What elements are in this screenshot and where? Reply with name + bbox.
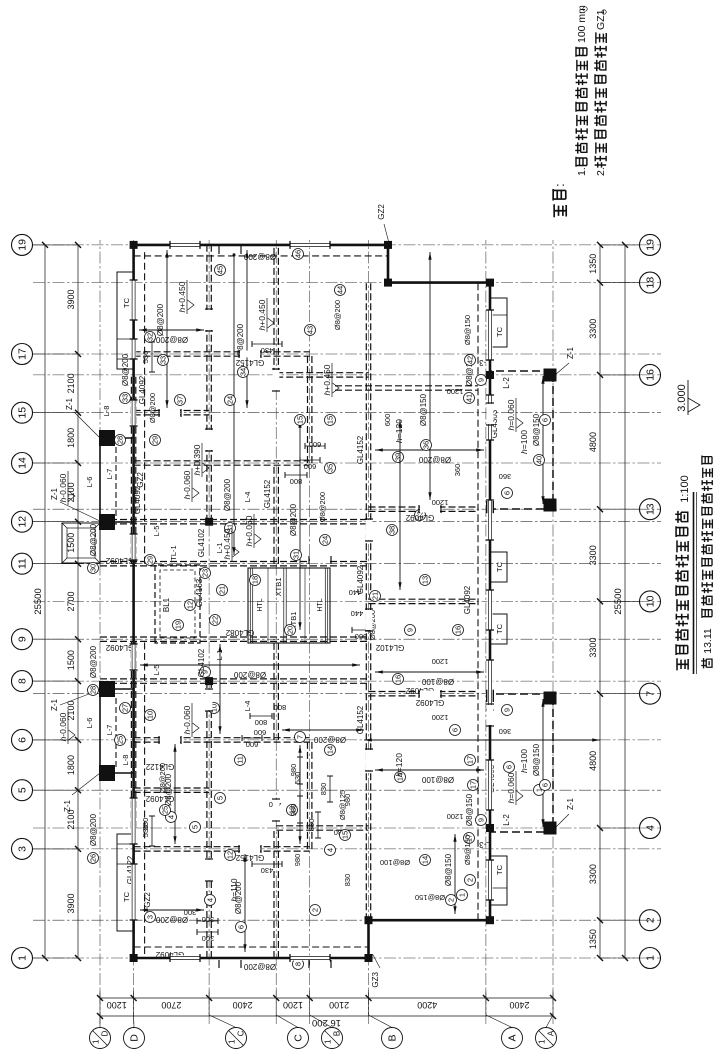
dim 530 right <box>151 342 153 372</box>
svg-text:1350: 1350 <box>588 929 598 949</box>
svg-text:23: 23 <box>201 569 210 577</box>
window left wall 2 <box>290 955 330 960</box>
svg-text:300: 300 <box>184 908 197 917</box>
svg-text:39: 39 <box>394 453 403 461</box>
svg-text:3300: 3300 <box>588 864 598 884</box>
svg-text:6: 6 <box>451 728 460 732</box>
svg-text:28: 28 <box>89 686 98 694</box>
svg-text:1500: 1500 <box>66 533 76 553</box>
svg-text:GZ2: GZ2 <box>143 892 152 908</box>
wall 1/B right <box>307 354 309 463</box>
svg-text:Ø8@200: Ø8@200 <box>89 645 98 678</box>
svg-text:3: 3 <box>146 915 155 919</box>
wall C mid-right <box>273 463 275 564</box>
svg-text:530: 530 <box>141 351 150 364</box>
svg-text:25500: 25500 <box>33 588 44 614</box>
svg-text:Ø8@200: Ø8@200 <box>148 393 157 423</box>
wall axis9 <box>100 640 369 642</box>
svg-text:600: 600 <box>246 740 259 749</box>
Z-1 leaders top <box>72 773 100 795</box>
svg-text:44: 44 <box>336 286 345 294</box>
dim 430 left <box>252 863 282 865</box>
svg-text:2400: 2400 <box>509 1000 529 1010</box>
outer wall right axis-19 <box>134 244 388 247</box>
door opening jamb ticks on interior walls <box>205 880 213 882</box>
svg-text:14: 14 <box>421 856 430 864</box>
svg-text:L-1: L-1 <box>215 543 224 554</box>
svg-text:1200: 1200 <box>432 657 449 666</box>
svg-text:h+0.060: h+0.060 <box>244 515 254 546</box>
slab span 7 room W <box>282 729 364 731</box>
svg-text:Ø8@200: Ø8@200 <box>89 813 98 846</box>
outer wall bottom A-axis <box>489 283 492 921</box>
svg-text:17: 17 <box>17 348 29 360</box>
wall C left <box>273 828 275 958</box>
svg-text:Ø8@200: Ø8@200 <box>243 252 276 261</box>
window right wall 1 <box>170 242 200 247</box>
wall D mid-left <box>130 639 132 828</box>
svg-text:Ø8@200: Ø8@200 <box>156 303 165 336</box>
svg-text:9: 9 <box>477 818 486 822</box>
dim 800 left <box>250 715 272 717</box>
svg-text:15: 15 <box>296 416 305 424</box>
svg-text:Ø8@200: Ø8@200 <box>418 455 451 464</box>
svg-text:Ø8@100: Ø8@100 <box>380 858 410 867</box>
svg-text:TC: TC <box>495 864 504 875</box>
window left wall 1 <box>170 955 200 960</box>
svg-text:A: A <box>547 1030 556 1036</box>
wall axis6 <box>134 741 310 743</box>
svg-text:10: 10 <box>146 711 155 719</box>
svg-text:9: 9 <box>477 378 486 382</box>
svg-text:Ø8@150: Ø8@150 <box>444 853 453 886</box>
window top 5 <box>131 400 136 426</box>
svg-text:Ø8@150: Ø8@150 <box>415 893 445 902</box>
svg-text:XTB1: XTB1 <box>274 578 283 597</box>
dim 830 left 2 <box>329 776 331 802</box>
svg-text:43: 43 <box>306 326 315 334</box>
svg-text:TC: TC <box>495 623 504 634</box>
svg-text:24: 24 <box>226 396 235 404</box>
wall axis16 <box>276 376 368 378</box>
svg-text:5: 5 <box>17 787 29 793</box>
svg-text:Ø8@200: Ø8@200 <box>155 915 188 924</box>
outer wall left axis-1 <box>134 957 369 960</box>
window top 4 <box>131 534 136 560</box>
svg-text:360: 360 <box>499 472 512 481</box>
svg-text:1350: 1350 <box>588 254 598 274</box>
circled 6 in left balcony <box>504 762 515 773</box>
svg-text:29: 29 <box>151 436 160 444</box>
slab span 6 kitchen <box>244 854 246 952</box>
svg-text:7: 7 <box>296 735 305 739</box>
svg-text:19: 19 <box>174 621 183 629</box>
svg-text:Ø8@150: Ø8@150 <box>463 315 472 345</box>
svg-text:L-7: L-7 <box>105 725 114 736</box>
notes: shuoming <box>554 204 566 217</box>
svg-text:15: 15 <box>326 416 335 424</box>
svg-text:h=100: h=100 <box>519 430 529 454</box>
svg-text:3300: 3300 <box>588 319 598 339</box>
svg-text:12: 12 <box>17 516 29 528</box>
svg-text:41: 41 <box>465 394 474 402</box>
svg-text:B: B <box>387 1034 399 1041</box>
svg-text:1800: 1800 <box>66 428 76 448</box>
svg-text:Z-1: Z-1 <box>50 698 59 711</box>
svg-text:17: 17 <box>469 781 478 789</box>
svg-text:3300: 3300 <box>588 545 598 565</box>
Z-1 leader left balcony <box>555 814 569 828</box>
svg-text:830: 830 <box>343 874 352 887</box>
svg-text:830: 830 <box>319 783 328 796</box>
svg-text:1200: 1200 <box>447 812 464 821</box>
wall 1/C left <box>206 681 208 958</box>
svg-text:GL4092: GL4092 <box>133 485 142 514</box>
wall axis14 <box>134 464 310 466</box>
svg-text:16 200: 16 200 <box>312 1017 341 1028</box>
svg-text:2100: 2100 <box>329 1000 349 1010</box>
circled position numbers <box>173 620 184 631</box>
svg-text:L-6: L-6 <box>85 718 94 729</box>
wall 1/C right <box>206 245 208 522</box>
svg-text:h=120: h=120 <box>394 419 404 443</box>
svg-text:33: 33 <box>159 356 168 364</box>
window bottom 4 <box>487 590 492 630</box>
svg-text:L-8: L-8 <box>121 755 130 766</box>
svg-text:Ø8@125: Ø8@125 <box>338 790 347 820</box>
wall axis3 <box>134 850 310 852</box>
svg-text:TC: TC <box>495 561 504 572</box>
outer wall top D-axis <box>132 245 135 958</box>
window bottom 1 <box>487 860 492 900</box>
svg-text:20: 20 <box>286 626 295 634</box>
window bottom 7 <box>487 310 492 360</box>
svg-text:h-0.060: h-0.060 <box>58 473 68 502</box>
svg-text:2400: 2400 <box>233 1000 253 1010</box>
svg-text:L-2: L-2 <box>502 377 511 389</box>
svg-text:5: 5 <box>216 796 225 800</box>
svg-text:6: 6 <box>505 765 514 769</box>
svg-text:9: 9 <box>17 636 29 642</box>
wall axis4 <box>276 829 368 831</box>
svg-text:42: 42 <box>466 356 475 364</box>
svg-text:Ø8@200: Ø8@200 <box>243 962 276 971</box>
svg-text:Ø8@200: Ø8@200 <box>223 478 232 511</box>
dim 980 left pair <box>299 796 301 823</box>
svg-text:2: 2 <box>645 917 657 923</box>
TC bay top-right <box>117 272 134 369</box>
svg-text:Z-1: Z-1 <box>566 346 575 359</box>
svg-text:A: A <box>507 1034 519 1041</box>
numbered axis grid lines <box>33 957 661 959</box>
svg-text:GZ2: GZ2 <box>377 204 386 220</box>
svg-text:2.: 2. <box>595 167 607 176</box>
svg-text:19: 19 <box>645 239 657 251</box>
top axis circles <box>12 948 33 969</box>
svg-text:Ø8@150: Ø8@150 <box>532 743 541 776</box>
BL1 balcony block over entrance <box>155 565 200 643</box>
svg-text:14: 14 <box>326 746 335 754</box>
svg-text:30: 30 <box>89 564 98 572</box>
svg-text:45: 45 <box>216 266 225 274</box>
GZ3 leader <box>373 954 381 968</box>
svg-text:25: 25 <box>116 736 125 744</box>
svg-text:2: 2 <box>311 908 320 912</box>
svg-text:GZ1: GZ1 <box>595 9 607 30</box>
dim 430 right <box>252 343 282 345</box>
svg-text:25500: 25500 <box>613 588 624 614</box>
svg-text:2: 2 <box>466 878 475 882</box>
svg-text:300: 300 <box>202 934 215 943</box>
svg-text:Ø8@200: Ø8@200 <box>333 300 342 330</box>
svg-text:4800: 4800 <box>588 432 598 452</box>
wall right-mid x=672 <box>335 389 478 391</box>
svg-text:980: 980 <box>289 804 298 817</box>
extra circled numbers + rebar labels scatter <box>320 535 331 546</box>
svg-text:15: 15 <box>341 831 350 839</box>
slab span 36 living E h <box>429 252 431 500</box>
Z-1 leader right balcony <box>555 363 569 375</box>
slab span 14 living <box>375 769 484 771</box>
slab span 1 balcony left <box>542 699 544 827</box>
corner columns <box>130 954 138 962</box>
svg-text:GL4152: GL4152 <box>235 853 264 862</box>
svg-text:980: 980 <box>293 854 302 867</box>
wall D mid-right <box>130 375 132 564</box>
svg-text:530: 530 <box>141 825 150 838</box>
porch right walls + Z-1 columns <box>99 438 101 522</box>
svg-text:C: C <box>293 1034 305 1042</box>
wall axis11 <box>100 565 369 567</box>
svg-text:11: 11 <box>236 756 245 764</box>
svg-text:33: 33 <box>121 394 130 402</box>
svg-text:800: 800 <box>290 477 303 486</box>
svg-text:430: 430 <box>261 346 274 355</box>
svg-text:14: 14 <box>17 457 29 469</box>
window top 7 <box>131 280 136 320</box>
wall B main <box>365 283 367 921</box>
svg-text:9: 9 <box>503 708 512 712</box>
svg-text:600: 600 <box>254 728 267 737</box>
top segment dimensions <box>77 245 79 958</box>
svg-text:600: 600 <box>304 462 317 471</box>
svg-text:600: 600 <box>309 440 322 449</box>
svg-text:h=0.060: h=0.060 <box>506 399 516 430</box>
svg-text:1800: 1800 <box>66 755 76 775</box>
svg-text:3.000: 3.000 <box>676 384 688 412</box>
circled 9 near left balcony <box>502 705 513 716</box>
title line 2: tu 13.11 mou zhuzhai yiceng louceng jiegou buzhitu <box>701 658 712 668</box>
svg-text:GL4152: GL4152 <box>356 705 365 734</box>
bottom overall dimension 25500 <box>624 245 626 958</box>
svg-text:32: 32 <box>146 333 155 341</box>
dim 830 left <box>317 812 319 838</box>
svg-text:1: 1 <box>645 955 657 961</box>
window right wall 2 <box>290 242 330 247</box>
title underline double <box>693 492 695 674</box>
TC bay bottom-left <box>490 856 507 905</box>
svg-text:Ø8@200: Ø8@200 <box>158 763 167 793</box>
svg-text:HTL: HTL <box>257 598 264 611</box>
TC bay bottom mid-right <box>490 552 507 582</box>
svg-text:15: 15 <box>17 407 29 419</box>
svg-text:40: 40 <box>535 456 544 464</box>
slab span 4 room N2 <box>174 744 176 844</box>
svg-text:600: 600 <box>383 414 392 427</box>
svg-text:2100: 2100 <box>66 373 76 393</box>
wall axis5 <box>134 791 210 793</box>
central entrance canopy <box>62 523 100 563</box>
svg-text:h=0.060: h=0.060 <box>506 772 516 803</box>
balcony bottom-right (axes 13-16) <box>490 371 553 509</box>
svg-text:BL1: BL1 <box>162 597 171 612</box>
svg-text:25: 25 <box>161 806 170 814</box>
svg-text:3900: 3900 <box>66 893 76 913</box>
svg-text:L-5: L-5 <box>152 665 161 676</box>
svg-text:1: 1 <box>92 1039 101 1044</box>
wall C mid-left <box>273 639 275 740</box>
svg-text:36: 36 <box>422 441 431 449</box>
svg-text:Ø8@200: Ø8@200 <box>318 492 327 522</box>
svg-text:7: 7 <box>645 691 657 697</box>
dim 600/600 right mid <box>300 459 320 461</box>
svg-text:GL4092: GL4092 <box>463 585 472 614</box>
TC bay bottom-right <box>490 298 507 347</box>
svg-text:2700: 2700 <box>161 1000 181 1010</box>
top overall dimension 25500 <box>44 245 46 958</box>
svg-text:800: 800 <box>255 718 268 727</box>
svg-text:46: 46 <box>294 250 303 258</box>
svg-text:Ø8@200: Ø8@200 <box>89 523 98 556</box>
svg-text:430: 430 <box>261 866 274 875</box>
svg-text:TC: TC <box>122 297 131 308</box>
svg-text:Z-1: Z-1 <box>63 799 72 812</box>
window bottom 3 <box>487 660 492 710</box>
svg-text:4800: 4800 <box>588 751 598 771</box>
svg-text:C: C <box>237 1030 246 1036</box>
svg-text:h+0.450: h+0.450 <box>322 364 332 395</box>
window top 3 <box>131 644 136 670</box>
cnum cluster left unit <box>310 905 321 916</box>
svg-text:8: 8 <box>294 962 303 966</box>
svg-text:4: 4 <box>206 898 215 902</box>
svg-text:Z-1: Z-1 <box>65 397 74 410</box>
svg-text:1.: 1. <box>576 167 588 176</box>
svg-text:GL4092: GL4092 <box>145 794 174 803</box>
slab span 10 mid <box>219 644 221 734</box>
svg-text:GL4152: GL4152 <box>263 479 272 508</box>
svg-text:13.11: 13.11 <box>702 628 714 654</box>
svg-text:L-1: L-1 <box>215 650 224 661</box>
svg-text:360: 360 <box>453 464 462 477</box>
slab span 40 balcony right <box>542 376 544 504</box>
svg-text:D: D <box>129 1034 141 1042</box>
svg-text:Ø8@100: Ø8@100 <box>421 677 454 686</box>
svg-text:1: 1 <box>538 1039 547 1044</box>
svg-text:11: 11 <box>17 558 29 569</box>
left overall dimension 16200 <box>100 1015 553 1017</box>
svg-text:16: 16 <box>454 626 463 634</box>
svg-text:18: 18 <box>645 277 657 289</box>
stair bay columns on 1/C <box>205 677 213 685</box>
dim 500 mid <box>352 629 370 631</box>
svg-text:Ø8@200: Ø8@200 <box>121 353 130 386</box>
svg-text:4200: 4200 <box>417 1000 437 1010</box>
svg-text:Ø8@150: Ø8@150 <box>463 835 472 865</box>
svg-text::: : <box>552 183 567 187</box>
GZ2 leader right <box>384 224 390 247</box>
slab span 39 living E <box>375 449 484 451</box>
svg-text:Ø8@150: Ø8@150 <box>465 793 474 826</box>
svg-text:500: 500 <box>355 632 368 641</box>
slab span 31 long arrow D-1C right <box>233 248 235 555</box>
svg-text:GL4102: GL4102 <box>197 528 206 557</box>
svg-text:17: 17 <box>466 756 475 764</box>
svg-text:830: 830 <box>307 819 316 832</box>
svg-text:L-4: L-4 <box>243 492 252 503</box>
window top 2 <box>131 798 136 844</box>
svg-text:Ø8@200: Ø8@200 <box>233 670 266 679</box>
TC bay bottom mid-left <box>490 614 507 644</box>
window bottom 5 <box>487 500 492 540</box>
svg-text:6: 6 <box>17 737 29 743</box>
svg-text:360: 360 <box>499 727 512 736</box>
svg-text:1500: 1500 <box>66 650 76 670</box>
svg-text:h-0.060: h-0.060 <box>58 712 68 741</box>
svg-text:2: 2 <box>447 898 456 902</box>
dim 300 pair left <box>197 931 218 933</box>
slab span 2 bottom left <box>454 834 456 914</box>
svg-text:Z-1: Z-1 <box>566 797 575 810</box>
svg-text:6: 6 <box>541 418 550 422</box>
svg-text:38: 38 <box>388 526 397 534</box>
svg-text:3300: 3300 <box>588 638 598 658</box>
svg-text:GL4152: GL4152 <box>235 358 264 367</box>
svg-text:L-4: L-4 <box>243 701 252 712</box>
dim 530 with bar left unit <box>151 816 153 846</box>
slab span 34 E room <box>246 250 248 408</box>
left segment dimensions <box>100 997 553 999</box>
svg-text:GL4102: GL4102 <box>197 648 206 677</box>
svg-text:h-0.060: h-0.060 <box>182 705 192 734</box>
bottom axis circles <box>640 948 661 969</box>
beam GL4092 dashed inside top wall <box>144 639 146 954</box>
svg-text:L-5: L-5 <box>152 526 161 537</box>
svg-text:37: 37 <box>176 396 185 404</box>
svg-text:TL-1: TL-1 <box>169 545 178 560</box>
stair block XTB1/HTL <box>248 568 330 643</box>
TC bay top-left <box>117 834 134 931</box>
svg-text:h=110: h=110 <box>229 878 239 902</box>
svg-text:h-0.060: h-0.060 <box>182 470 192 499</box>
svg-text:GL4152: GL4152 <box>356 435 365 464</box>
svg-text:16: 16 <box>394 675 403 683</box>
svg-text:1: 1 <box>17 955 29 961</box>
svg-text:GL4092: GL4092 <box>405 513 434 522</box>
slab span 35 E mid <box>364 739 600 741</box>
svg-text:13: 13 <box>645 503 657 515</box>
wall axis17 <box>134 355 310 357</box>
svg-text:Ø8@200: Ø8@200 <box>289 503 298 536</box>
svg-text:28: 28 <box>116 436 125 444</box>
balcony bottom-left (axes 4-7) <box>490 694 553 832</box>
svg-text:Ø8@150: Ø8@150 <box>419 393 428 426</box>
svg-text:6: 6 <box>503 491 512 495</box>
svg-text:h=100: h=100 <box>519 749 529 773</box>
svg-text:6: 6 <box>237 925 246 929</box>
svg-text:27: 27 <box>121 704 130 712</box>
svg-text:1200: 1200 <box>447 387 464 396</box>
